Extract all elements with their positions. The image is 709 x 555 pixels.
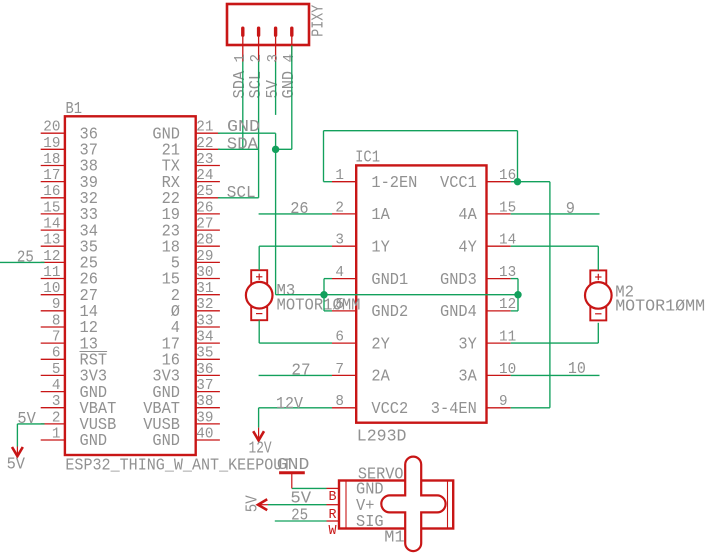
svg-text:18: 18 [43,151,60,168]
svg-text:26: 26 [290,200,308,219]
svg-text:33: 33 [196,312,213,329]
svg-text:4Y: 4Y [458,238,476,257]
svg-text:13: 13 [43,232,60,249]
svg-text:5V: 5V [243,495,262,513]
svg-text:24: 24 [196,167,213,184]
svg-text:27: 27 [291,362,310,381]
svg-text:39: 39 [196,409,213,426]
svg-text:3: 3 [265,54,282,63]
svg-text:35: 35 [196,345,213,362]
svg-text:5V: 5V [17,410,36,429]
svg-text:1: 1 [232,54,249,63]
svg-text:B1: B1 [66,100,83,119]
svg-text:5: 5 [52,361,61,378]
svg-text:17: 17 [43,167,60,184]
svg-text:2: 2 [335,199,344,216]
svg-text:2: 2 [52,409,61,426]
svg-text:5V: 5V [7,456,26,475]
svg-text:29: 29 [196,248,213,265]
svg-text:25: 25 [196,183,213,200]
svg-text:25: 25 [17,248,34,267]
svg-text:11: 11 [43,264,60,281]
svg-text:4: 4 [52,377,61,394]
svg-text:1: 1 [335,167,344,184]
svg-text:8: 8 [335,393,344,410]
svg-text:3A: 3A [458,368,477,387]
svg-text:4: 4 [281,54,298,63]
svg-text:2: 2 [248,54,265,63]
svg-text:10: 10 [568,360,586,379]
svg-text:VCC1: VCC1 [440,174,477,193]
svg-text:25: 25 [291,506,308,525]
svg-text:1: 1 [52,425,61,442]
svg-text:22: 22 [196,135,213,152]
svg-text:4A: 4A [458,206,477,225]
svg-text:12V: 12V [276,395,304,414]
svg-text:9: 9 [52,296,61,313]
svg-text:GND2: GND2 [371,303,408,322]
svg-text:GND: GND [277,456,310,475]
svg-text:28: 28 [196,232,213,249]
svg-text:GND4: GND4 [440,303,477,322]
svg-text:1A: 1A [371,206,390,225]
svg-text:GND1: GND1 [371,271,408,290]
svg-text:MOTOR1ØMM: MOTOR1ØMM [615,298,705,317]
svg-text:6: 6 [335,329,344,346]
svg-text:26: 26 [196,199,213,216]
svg-text:SCL: SCL [227,184,256,203]
svg-text:L293D: L293D [357,428,407,447]
svg-text:SIG: SIG [356,513,384,532]
svg-text:1-2EN: 1-2EN [371,174,417,193]
svg-text:32: 32 [196,296,213,313]
svg-text:GND3: GND3 [440,271,477,290]
svg-text:GND: GND [80,432,108,451]
svg-text:3Y: 3Y [458,335,476,354]
svg-text:8: 8 [52,312,61,329]
svg-text:21: 21 [196,119,213,136]
svg-text:B: B [329,490,337,505]
svg-text:15: 15 [43,199,60,216]
svg-text:14: 14 [43,216,60,233]
svg-text:7: 7 [335,361,344,378]
svg-text:10: 10 [43,280,60,297]
svg-text:4: 4 [335,264,344,281]
svg-text:19: 19 [43,135,60,152]
svg-text:1Y: 1Y [371,238,389,257]
svg-text:W: W [329,524,338,539]
svg-text:7: 7 [52,329,61,346]
svg-text:20: 20 [43,119,60,136]
svg-text:IC1: IC1 [355,149,380,168]
svg-text:3: 3 [52,393,61,410]
svg-text:34: 34 [196,329,213,346]
svg-text:GND: GND [152,432,180,451]
svg-text:16: 16 [43,183,60,200]
svg-text:9: 9 [499,393,508,410]
svg-text:9: 9 [566,200,575,219]
svg-text:6: 6 [52,345,61,362]
svg-text:GND: GND [280,71,299,99]
svg-text:ESP32_THING_W_ANT_KEEPOUT: ESP32_THING_W_ANT_KEEPOUT [65,457,291,476]
svg-text:12: 12 [43,248,60,265]
svg-text:VCC2: VCC2 [371,400,408,419]
svg-text:2A: 2A [371,368,390,387]
svg-text:37: 37 [196,377,213,394]
svg-text:40: 40 [196,425,213,442]
svg-text:PIXY: PIXY [310,5,329,37]
svg-text:36: 36 [196,361,213,378]
svg-text:38: 38 [196,393,213,410]
svg-text:27: 27 [196,216,213,233]
svg-text:12V: 12V [249,440,273,459]
svg-text:SDA: SDA [227,135,259,154]
svg-text:M1: M1 [384,529,404,548]
svg-text:3: 3 [335,232,344,249]
svg-text:31: 31 [196,280,213,297]
svg-text:MOTOR1ØMM: MOTOR1ØMM [277,297,361,316]
svg-text:2Y: 2Y [371,335,389,354]
svg-text:3-4EN: 3-4EN [431,400,477,419]
svg-text:23: 23 [196,151,213,168]
svg-text:30: 30 [196,264,213,281]
